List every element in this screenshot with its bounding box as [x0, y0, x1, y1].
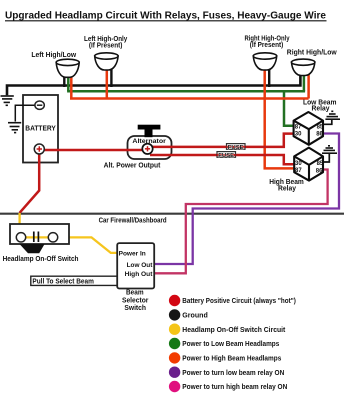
svg-text:Power to turn high beam relay: Power to turn high beam relay ON [182, 382, 287, 391]
svg-text:85: 85 [317, 124, 324, 130]
svg-text:Power to turn low beam relay O: Power to turn low beam relay ON [182, 368, 284, 377]
svg-text:Upgraded Headlamp Circuit With: Upgraded Headlamp Circuit With Relays, F… [5, 11, 327, 22]
svg-text:Power to Low Beam Headlamps: Power to Low Beam Headlamps [182, 339, 279, 348]
svg-text:Right High/Low: Right High/Low [287, 50, 337, 57]
svg-text:Left High/Low: Left High/Low [31, 52, 76, 59]
svg-text:Headlamp On-Off Switch: Headlamp On-Off Switch [3, 256, 79, 263]
svg-text:Relay: Relay [312, 106, 330, 113]
svg-text:Headlamp On-Off Switch Circuit: Headlamp On-Off Switch Circuit [182, 325, 286, 334]
svg-text:Alt. Power Output: Alt. Power Output [104, 161, 161, 170]
svg-text:Power In: Power In [119, 250, 146, 257]
svg-text:30: 30 [295, 132, 302, 138]
svg-text:Low Out: Low Out [127, 262, 154, 269]
svg-text:87: 87 [295, 124, 302, 130]
svg-text:FUSE: FUSE [218, 153, 234, 159]
svg-text:Selector: Selector [122, 298, 149, 305]
svg-text:Switch: Switch [124, 305, 146, 312]
svg-text:(If Present): (If Present) [89, 43, 123, 50]
svg-text:(If Present): (If Present) [250, 42, 283, 49]
svg-text:Pull To Select Beam: Pull To Select Beam [32, 276, 94, 285]
svg-text:Battery Positive Circuit (alwa: Battery Positive Circuit (always "hot") [182, 296, 296, 305]
svg-text:85: 85 [317, 161, 324, 167]
svg-text:86: 86 [316, 132, 323, 138]
svg-text:30: 30 [295, 161, 302, 167]
svg-text:Car Firewall/Dashboard: Car Firewall/Dashboard [99, 217, 167, 224]
svg-text:87: 87 [295, 168, 302, 174]
svg-text:Ground: Ground [182, 310, 208, 319]
svg-text:BATTERY: BATTERY [25, 123, 56, 132]
svg-text:FUSE: FUSE [228, 145, 244, 151]
svg-text:Beam: Beam [126, 290, 144, 297]
svg-text:Relay: Relay [278, 185, 296, 192]
svg-text:86: 86 [316, 168, 323, 174]
svg-text:Power to High Beam Headlamps: Power to High Beam Headlamps [182, 353, 281, 362]
svg-text:High Out: High Out [125, 271, 154, 278]
